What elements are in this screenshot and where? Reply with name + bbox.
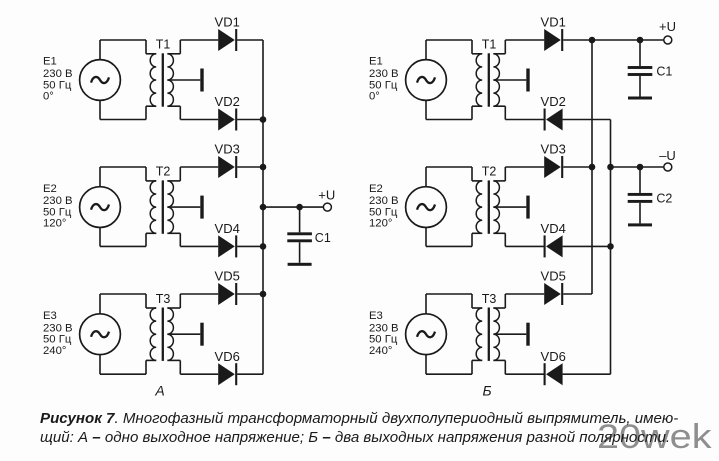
svg-text:0°: 0° xyxy=(369,91,380,103)
svg-text:120°: 120° xyxy=(369,218,392,230)
svg-text:50 Гц: 50 Гц xyxy=(369,334,398,346)
svg-text:C2: C2 xyxy=(656,192,672,206)
svg-text:230 В: 230 В xyxy=(43,195,73,207)
svg-text:E3: E3 xyxy=(369,310,383,322)
svg-text:VD5: VD5 xyxy=(541,269,566,284)
svg-text:50 Гц: 50 Гц xyxy=(43,206,72,218)
svg-text:T3: T3 xyxy=(156,292,171,306)
svg-text:E1: E1 xyxy=(369,56,383,68)
svg-text:230 В: 230 В xyxy=(43,68,73,80)
svg-text:+U: +U xyxy=(318,187,335,202)
svg-text:VD1: VD1 xyxy=(215,15,240,30)
svg-text:240°: 240° xyxy=(43,345,66,357)
svg-text:T1: T1 xyxy=(482,38,497,52)
svg-text:VD5: VD5 xyxy=(215,269,240,284)
svg-text:–U: –U xyxy=(659,148,676,163)
svg-text:VD2: VD2 xyxy=(215,94,240,109)
svg-text:VD4: VD4 xyxy=(541,221,566,236)
svg-text:E3: E3 xyxy=(43,310,57,322)
svg-text:50 Гц: 50 Гц xyxy=(43,334,72,346)
svg-text:E2: E2 xyxy=(43,183,57,195)
svg-text:230 В: 230 В xyxy=(43,322,73,334)
svg-text:C1: C1 xyxy=(315,231,331,245)
svg-text:T1: T1 xyxy=(156,38,171,52)
svg-text:E2: E2 xyxy=(369,183,383,195)
svg-text:0°: 0° xyxy=(43,91,54,103)
svg-text:120°: 120° xyxy=(43,218,66,230)
svg-text:VD3: VD3 xyxy=(215,142,240,157)
svg-text:VD6: VD6 xyxy=(215,349,240,364)
svg-text:VD4: VD4 xyxy=(215,221,240,236)
svg-text:Б: Б xyxy=(482,383,491,399)
svg-text:50 Гц: 50 Гц xyxy=(369,206,398,218)
svg-text:230 В: 230 В xyxy=(369,322,399,334)
svg-text:E1: E1 xyxy=(43,56,57,68)
svg-text:230 В: 230 В xyxy=(369,195,399,207)
svg-text:T3: T3 xyxy=(482,292,497,306)
svg-text:50 Гц: 50 Гц xyxy=(43,79,72,91)
svg-text:T2: T2 xyxy=(156,165,171,179)
svg-text:VD6: VD6 xyxy=(541,349,566,364)
svg-text:+U: +U xyxy=(659,19,676,34)
svg-text:230 В: 230 В xyxy=(369,68,399,80)
svg-text:C1: C1 xyxy=(656,65,672,79)
svg-text:T2: T2 xyxy=(482,165,497,179)
svg-text:VD3: VD3 xyxy=(541,142,566,157)
svg-text:50 Гц: 50 Гц xyxy=(369,79,398,91)
svg-text:240°: 240° xyxy=(369,345,392,357)
svg-text:VD2: VD2 xyxy=(541,94,566,109)
svg-text:VD1: VD1 xyxy=(541,15,566,30)
svg-text:А: А xyxy=(154,383,164,399)
